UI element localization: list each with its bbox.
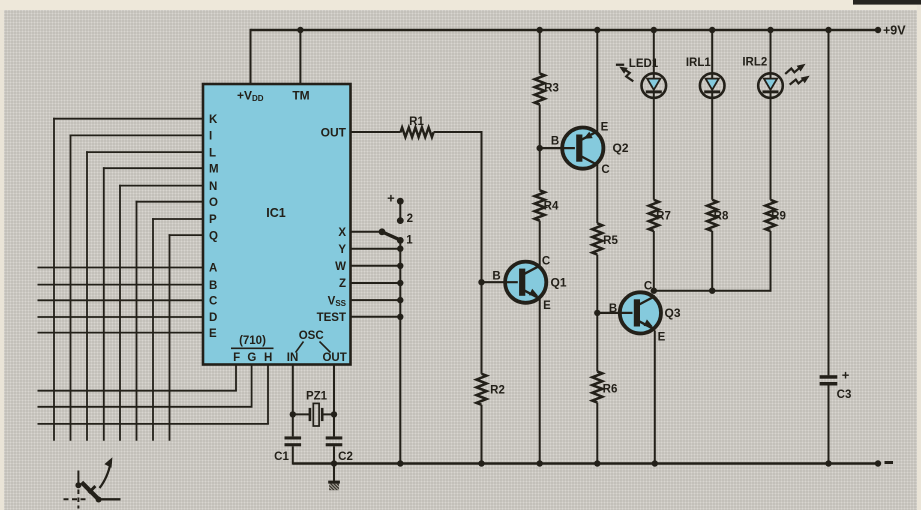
- wire matrix column M vertical: [103, 167, 105, 440]
- svg-text:IRL1: IRL1: [686, 57, 712, 69]
- wire Q1 base: [482, 281, 518, 283]
- svg-text:R6: R6: [603, 383, 618, 395]
- wire rail to R3: [539, 30, 541, 74]
- wire Q3 emitter to bottom rail: [654, 331, 656, 464]
- wire ground stub: [333, 464, 335, 482]
- svg-text:Y: Y: [338, 244, 346, 256]
- node bottom rail end dot: [875, 460, 881, 466]
- resistor R3: [535, 74, 545, 105]
- switch key legend: actuator crossbar: [89, 486, 96, 493]
- resistor R6: [592, 372, 602, 403]
- svg-text:2: 2: [407, 213, 413, 225]
- wire Vss pin to bus: [351, 299, 401, 301]
- wire pin G drop: [251, 365, 253, 407]
- transistor Q3: [620, 292, 661, 333]
- OSC brace left: [296, 342, 304, 353]
- node PZ1 right junction: [331, 411, 337, 417]
- wire matrix column N vertical: [119, 185, 121, 441]
- wire R5 to Q3 base node: [596, 255, 598, 372]
- svg-text:R3: R3: [544, 82, 559, 94]
- svg-text:R2: R2: [490, 384, 505, 396]
- ground symbol: [328, 481, 340, 491]
- piezo resonator PZ1: [293, 403, 334, 426]
- svg-text:Z: Z: [339, 278, 346, 290]
- resistor R5: [592, 223, 602, 254]
- node Q3 emitter rail junction: [652, 460, 658, 466]
- wire matrix row pin E: [38, 332, 204, 334]
- switch key legend: top contact dot: [75, 482, 81, 488]
- wire matrix column P vertical: [152, 218, 154, 441]
- svg-text:W: W: [335, 261, 346, 273]
- wire OUT pin to R1: [351, 131, 401, 133]
- svg-text:IC1: IC1: [266, 206, 286, 220]
- page margin top cream band: [0, 0, 921, 10]
- wire TEST pin to bus: [351, 316, 401, 318]
- svg-text:OSC: OSC: [299, 330, 324, 342]
- svg-text:TEST: TEST: [317, 312, 346, 324]
- svg-text:H: H: [264, 352, 272, 364]
- wire pin M horizontal: [103, 167, 203, 169]
- wire IRL1 to R8: [711, 98, 713, 200]
- wire pin K horizontal: [53, 118, 203, 120]
- OSC brace right: [320, 342, 331, 353]
- svg-text:C: C: [644, 280, 652, 292]
- page margin right cream band: [917, 5, 921, 510]
- wire matrix row pin C: [38, 299, 204, 301]
- svg-text:R9: R9: [771, 210, 786, 222]
- wire R8 down to collector tie line: [711, 231, 713, 291]
- switch key legend: key plunger bar: [82, 482, 100, 500]
- svg-text:Q2: Q2: [612, 141, 628, 155]
- wire Q1 emitter to bottom rail: [539, 297, 541, 463]
- wire C1 to bottom rail corner: [292, 446, 294, 464]
- IRL2 emission arrow lower: [790, 76, 810, 85]
- wire matrix column O vertical: [136, 201, 138, 441]
- wire C3 to bottom rail: [828, 386, 830, 464]
- resistor R2: [477, 374, 487, 405]
- node switch common dot (X): [379, 228, 386, 235]
- svg-text:C: C: [601, 164, 609, 176]
- node R8 tie junction: [709, 288, 715, 294]
- infrared LED IRL2: [758, 73, 783, 98]
- node R6 bottom rail junction: [594, 460, 600, 466]
- svg-text:L: L: [209, 147, 216, 159]
- wire pin O horizontal: [136, 201, 203, 203]
- wire bottom negative rail: [293, 462, 878, 464]
- wire W pin to bus: [351, 265, 401, 267]
- wire R6 to bottom rail: [596, 403, 598, 464]
- svg-text:X: X: [338, 227, 346, 239]
- svg-text:C: C: [542, 255, 550, 267]
- capacitor C2: [326, 436, 343, 446]
- svg-text:+9V: +9V: [883, 24, 906, 38]
- capacitor C1: [285, 436, 302, 446]
- switch key legend: motion arrow arc: [100, 462, 111, 488]
- wire R1 to Q1 base column: [434, 131, 482, 133]
- IC U1 body (IC1): [203, 84, 351, 365]
- wire R7 down to Q3 collector node: [653, 231, 655, 291]
- svg-text:A: A: [209, 263, 217, 275]
- wire matrix row pin A: [38, 267, 204, 269]
- switch key legend: motion arrow head: [104, 457, 112, 468]
- wire TM pin to rail: [299, 30, 301, 84]
- svg-text:E: E: [601, 122, 609, 134]
- wire pin I horizontal: [70, 134, 203, 136]
- switch key legend: dashed column continuation: [77, 490, 79, 509]
- node +9V rail end dot: [875, 27, 881, 33]
- node Z bus junction: [397, 280, 403, 286]
- wire bus position1 down to bottom rail: [399, 240, 401, 463]
- svg-text:E: E: [209, 328, 217, 340]
- node Q2 base junction: [537, 145, 543, 151]
- svg-text:E: E: [543, 300, 551, 312]
- svg-text:TM: TM: [292, 88, 309, 102]
- label minus terminal: [885, 461, 894, 464]
- wire matrix row F: [38, 390, 237, 392]
- svg-text:(710): (710): [239, 335, 266, 347]
- transistor Q1: [505, 262, 546, 303]
- wire pin H drop: [267, 365, 269, 424]
- wire R4 to Q1 collector: [539, 221, 541, 268]
- resistor R4: [535, 190, 545, 220]
- wire R9 down to collector tie line corner: [770, 231, 772, 292]
- node Q3 collector junction: [651, 288, 657, 294]
- bracket under (710): [231, 347, 274, 349]
- svg-text:R8: R8: [714, 210, 729, 222]
- switch key legend: column stub: [77, 471, 79, 486]
- wire pin F drop: [235, 365, 237, 391]
- wire Q2 base: [540, 147, 575, 149]
- svg-text:C2: C2: [338, 451, 353, 463]
- switch key legend: dashed row left: [64, 498, 88, 500]
- svg-text:+: +: [842, 368, 850, 383]
- node position 2 upper dot: [397, 198, 404, 205]
- wire matrix row H: [38, 423, 269, 425]
- capacitor C3: [820, 375, 838, 385]
- svg-text:R4: R4: [544, 201, 559, 213]
- node switch position 1 dot: [397, 237, 404, 244]
- svg-text:P: P: [209, 214, 217, 226]
- wire Q2 collector down to R5: [596, 163, 598, 224]
- wire Q3 base: [597, 312, 632, 314]
- svg-text:1: 1: [406, 235, 413, 247]
- wire matrix column I vertical: [70, 135, 72, 441]
- node bus bottom rail junction: [397, 460, 403, 466]
- wire Z pin to bus: [351, 282, 401, 284]
- node Q1 emitter rail junction: [537, 460, 543, 466]
- node C3 bottom rail junction: [825, 460, 831, 466]
- switch arm X to position 1: [382, 232, 401, 240]
- node LED1 rail junction: [651, 27, 657, 33]
- svg-text:OUT: OUT: [322, 352, 346, 364]
- LED LED1: [642, 73, 667, 98]
- wire pin P horizontal: [152, 218, 203, 220]
- node Q3 base junction: [594, 310, 600, 316]
- svg-text:B: B: [209, 280, 217, 292]
- node C2 bottom rail junction: [331, 460, 337, 466]
- switch key legend: row wire: [97, 498, 121, 500]
- wire LED1 to R7: [653, 98, 655, 200]
- page top-right black edge bar: [853, 0, 921, 5]
- svg-text:E: E: [658, 332, 666, 344]
- svg-text:R1: R1: [409, 116, 424, 128]
- wire collector tie line: [653, 290, 771, 292]
- svg-text:R5: R5: [603, 235, 618, 247]
- svg-text:B: B: [492, 271, 500, 283]
- svg-text:O: O: [209, 197, 218, 209]
- svg-text:Q3: Q3: [664, 306, 680, 320]
- resistor R7: [649, 200, 659, 231]
- transistor Q2: [562, 128, 603, 169]
- wire pin L horizontal: [86, 151, 203, 153]
- LED1 emission arrow: [616, 64, 633, 82]
- resistor R8: [707, 200, 717, 231]
- wire matrix row G: [38, 406, 253, 408]
- wire R3 to R4 / Q2 base node: [539, 105, 541, 191]
- wire pin N horizontal: [119, 185, 203, 187]
- svg-text:PZ1: PZ1: [306, 391, 328, 403]
- Q2 emitter arrow (pnp, points into base): [583, 132, 592, 139]
- Q1 emitter arrow: [529, 289, 538, 296]
- wire matrix column K vertical: [53, 118, 55, 441]
- wire rail to LED1: [653, 30, 655, 75]
- svg-text:C3: C3: [837, 389, 852, 401]
- node PZ1 left junction: [290, 411, 296, 417]
- wire rail to C3: [828, 30, 830, 375]
- svg-text:D: D: [209, 312, 217, 324]
- svg-text:C1: C1: [274, 451, 289, 463]
- node Y bus junction: [397, 246, 403, 252]
- wire position 2 stub: [399, 201, 401, 220]
- node R2 bottom rail junction: [478, 460, 484, 466]
- svg-text:Q1: Q1: [550, 275, 566, 289]
- wire Y pin to bus: [351, 248, 401, 250]
- svg-text:G: G: [247, 352, 256, 364]
- page margin left cream band: [0, 10, 4, 510]
- node IRL2 rail junction: [767, 27, 773, 33]
- svg-text:C: C: [209, 296, 217, 308]
- switch key legend: bottom contact dot: [96, 497, 102, 503]
- wire Q1 base column down to R2: [481, 282, 483, 374]
- resistor R1: [401, 128, 434, 138]
- wire column R1 down to Q1 base: [481, 131, 483, 282]
- wire rail to IRL1: [711, 30, 713, 75]
- wire matrix row pin D: [38, 316, 204, 318]
- wire rail to Q2 emitter: [596, 30, 598, 134]
- node R3 top rail junction: [537, 27, 543, 33]
- svg-text:IN: IN: [287, 352, 299, 364]
- resistor R9: [766, 200, 776, 231]
- node IRL1 rail junction: [709, 27, 715, 33]
- node Vss bus junction: [397, 297, 403, 303]
- wire OSC OUT pin down to C2: [333, 365, 335, 437]
- node Q1 base junction: [478, 279, 484, 285]
- wire +9V top supply rail: [251, 29, 879, 31]
- svg-text:IRL2: IRL2: [742, 56, 767, 68]
- wire pin Q horizontal: [169, 234, 203, 236]
- svg-text:LED1: LED1: [629, 58, 659, 70]
- wire +Vdd pin to rail: [250, 29, 252, 84]
- wire rail to IRL2: [770, 30, 772, 75]
- svg-text:R7: R7: [656, 210, 671, 222]
- node TEST bus junction: [397, 314, 403, 320]
- svg-text:K: K: [209, 114, 218, 126]
- node C3 rail junction: [825, 27, 831, 33]
- wire X pin stub: [351, 231, 383, 233]
- svg-text:F: F: [233, 352, 240, 364]
- node W bus junction: [397, 263, 403, 269]
- Q3 emitter arrow: [644, 319, 653, 326]
- node Q2 emitter rail junction: [594, 27, 600, 33]
- svg-text:M: M: [209, 163, 219, 175]
- wire C2 to bottom rail: [333, 446, 335, 463]
- IRL2 emission arrow upper: [785, 64, 805, 74]
- svg-text:B: B: [551, 136, 559, 148]
- svg-text:N: N: [209, 181, 217, 193]
- infrared LED IRL1: [700, 73, 725, 98]
- svg-text:OUT: OUT: [321, 125, 347, 139]
- wire R2 to bottom rail: [481, 405, 483, 464]
- svg-text:B: B: [609, 303, 617, 315]
- wire matrix column Q vertical: [169, 234, 171, 441]
- svg-text:I: I: [209, 131, 212, 143]
- wire OSC IN pin down to C1: [292, 365, 294, 437]
- svg-text:+: +: [387, 190, 395, 205]
- node TM rail junction: [297, 27, 303, 33]
- wire IRL2 to R9: [770, 98, 772, 200]
- svg-text:Q: Q: [209, 230, 218, 242]
- node position 2 lower dot: [397, 217, 404, 224]
- wire matrix column L vertical: [86, 151, 88, 441]
- wire matrix row pin B: [38, 284, 204, 286]
